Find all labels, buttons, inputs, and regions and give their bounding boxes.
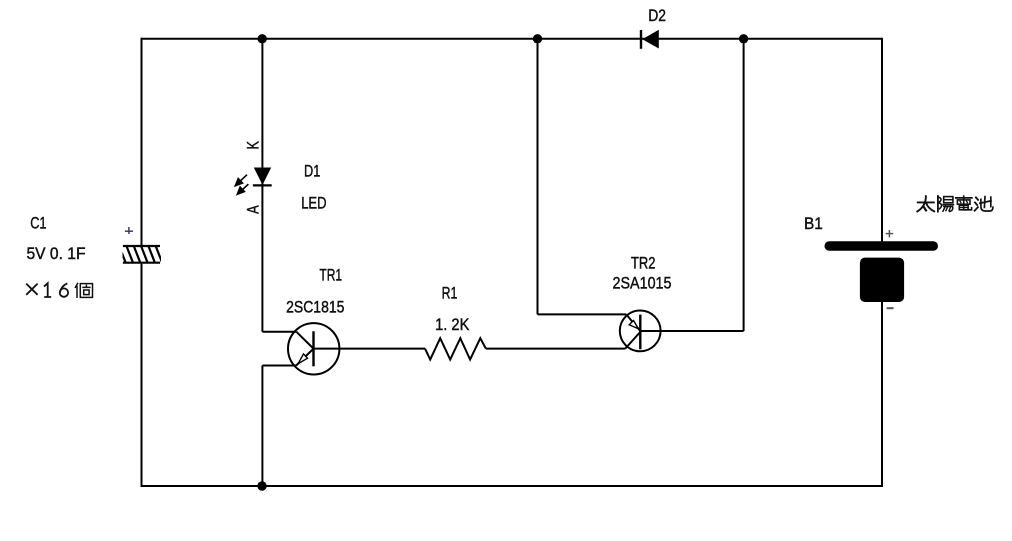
svg-text:5V 0. 1F: 5V 0. 1F	[27, 244, 86, 263]
svg-text:TR2: TR2	[631, 253, 656, 272]
svg-text:R1: R1	[442, 284, 458, 303]
svg-text:D1: D1	[304, 162, 320, 181]
svg-text:2SC1815: 2SC1815	[286, 297, 344, 316]
svg-text:TR1: TR1	[319, 266, 342, 285]
svg-text:2SA1015: 2SA1015	[613, 273, 672, 292]
svg-text:C1: C1	[30, 214, 46, 233]
svg-text:1. 2K: 1. 2K	[435, 315, 470, 334]
svg-text:D2: D2	[648, 6, 666, 25]
svg-text:K: K	[244, 141, 262, 150]
svg-text:B1: B1	[804, 214, 823, 233]
svg-text:A: A	[245, 205, 263, 214]
svg-text:LED: LED	[301, 193, 326, 212]
